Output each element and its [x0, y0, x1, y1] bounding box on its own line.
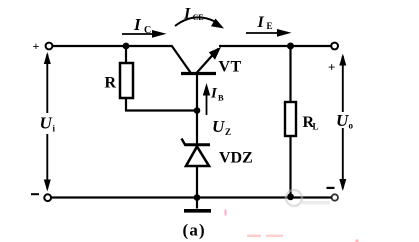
dimension arrow: output voltage Uo (double headed): [342, 56, 344, 112]
resistor RL: bottom lead: [289, 136, 291, 197]
svg-text:C: C: [144, 25, 151, 36]
svg-text:o: o: [349, 121, 354, 131]
transistor VT: emitter slant lead with arrow: [197, 49, 219, 74]
svg-text:Z: Z: [225, 127, 231, 137]
terminal: output - (open circle): [332, 194, 338, 200]
svg-text:U: U: [40, 114, 53, 133]
svg-text:i: i: [53, 124, 56, 134]
svg-text:R: R: [105, 75, 117, 92]
svg-text:B: B: [218, 93, 224, 103]
arrow: current IE over top-right wire: [246, 32, 281, 34]
resistor RL: body: [285, 102, 296, 136]
ground symbol below bottom rail: [196, 198, 198, 209]
dimension arrow: input voltage Ui (double headed): [46, 54, 48, 113]
svg-text:E: E: [267, 21, 273, 31]
watermark smudge near RL bottom junction: [286, 190, 302, 206]
svg-text:I: I: [210, 86, 218, 102]
zener diode VDZ: anode lead to rail: [196, 166, 198, 197]
svg-text:L: L: [313, 122, 319, 132]
node: junction dot on top rail at resistor R top: [123, 43, 130, 50]
svg-text:I: I: [257, 14, 265, 31]
svg-text:(a): (a): [183, 221, 206, 240]
node: junction dot zener anode on bottom rail: [194, 194, 201, 201]
watermark pink marks bottom: [225, 210, 227, 216]
resistor R: top lead: [125, 46, 127, 63]
label: - (output): [327, 187, 335, 189]
zener diode VDZ: cathode bar with tick: [185, 143, 211, 146]
arrow: current IB beside base lead: [206, 91, 208, 115]
wire: bottom rail: [51, 196, 332, 198]
wire: top rail left segment from + terminal to collector bend: [52, 45, 172, 47]
terminal: input + (open circle): [46, 43, 53, 50]
terminal: output + (open circle): [331, 43, 338, 50]
svg-text:+: +: [328, 60, 335, 75]
svg-text:U: U: [336, 111, 349, 130]
transistor VT: collector slant lead: [172, 46, 191, 73]
wire: R bottom to base node: [125, 109, 197, 111]
svg-text:CE: CE: [193, 13, 204, 22]
label: - (input): [31, 193, 39, 195]
node: junction dot base / R bottom: [194, 107, 201, 114]
svg-text:VDZ: VDZ: [219, 150, 253, 167]
arrow: current ICE arc over transistor: [175, 17, 215, 26]
svg-text:+: +: [33, 39, 40, 53]
arrow: current IC over top-left wire: [122, 33, 157, 35]
wire: base lead down from base bar to zener: [196, 74, 198, 145]
terminal: input - (open circle): [44, 194, 51, 201]
resistor R: bottom lead: [125, 98, 127, 111]
node: junction dot on top rail at load RL top: [287, 43, 294, 50]
svg-text:I: I: [133, 15, 142, 34]
zener diode VDZ: triangle (anode, pointing up): [186, 147, 209, 167]
transistor VT: base bar: [181, 72, 216, 75]
svg-text:I: I: [183, 6, 191, 23]
resistor RL: top lead: [289, 46, 291, 102]
svg-text:U: U: [212, 117, 225, 136]
svg-text:VT: VT: [219, 59, 242, 76]
resistor R: body: [120, 63, 133, 98]
node: junction dot RL bottom on bottom rail: [287, 193, 294, 200]
wire: top rail right segment from emitter to + output terminal: [219, 45, 332, 47]
